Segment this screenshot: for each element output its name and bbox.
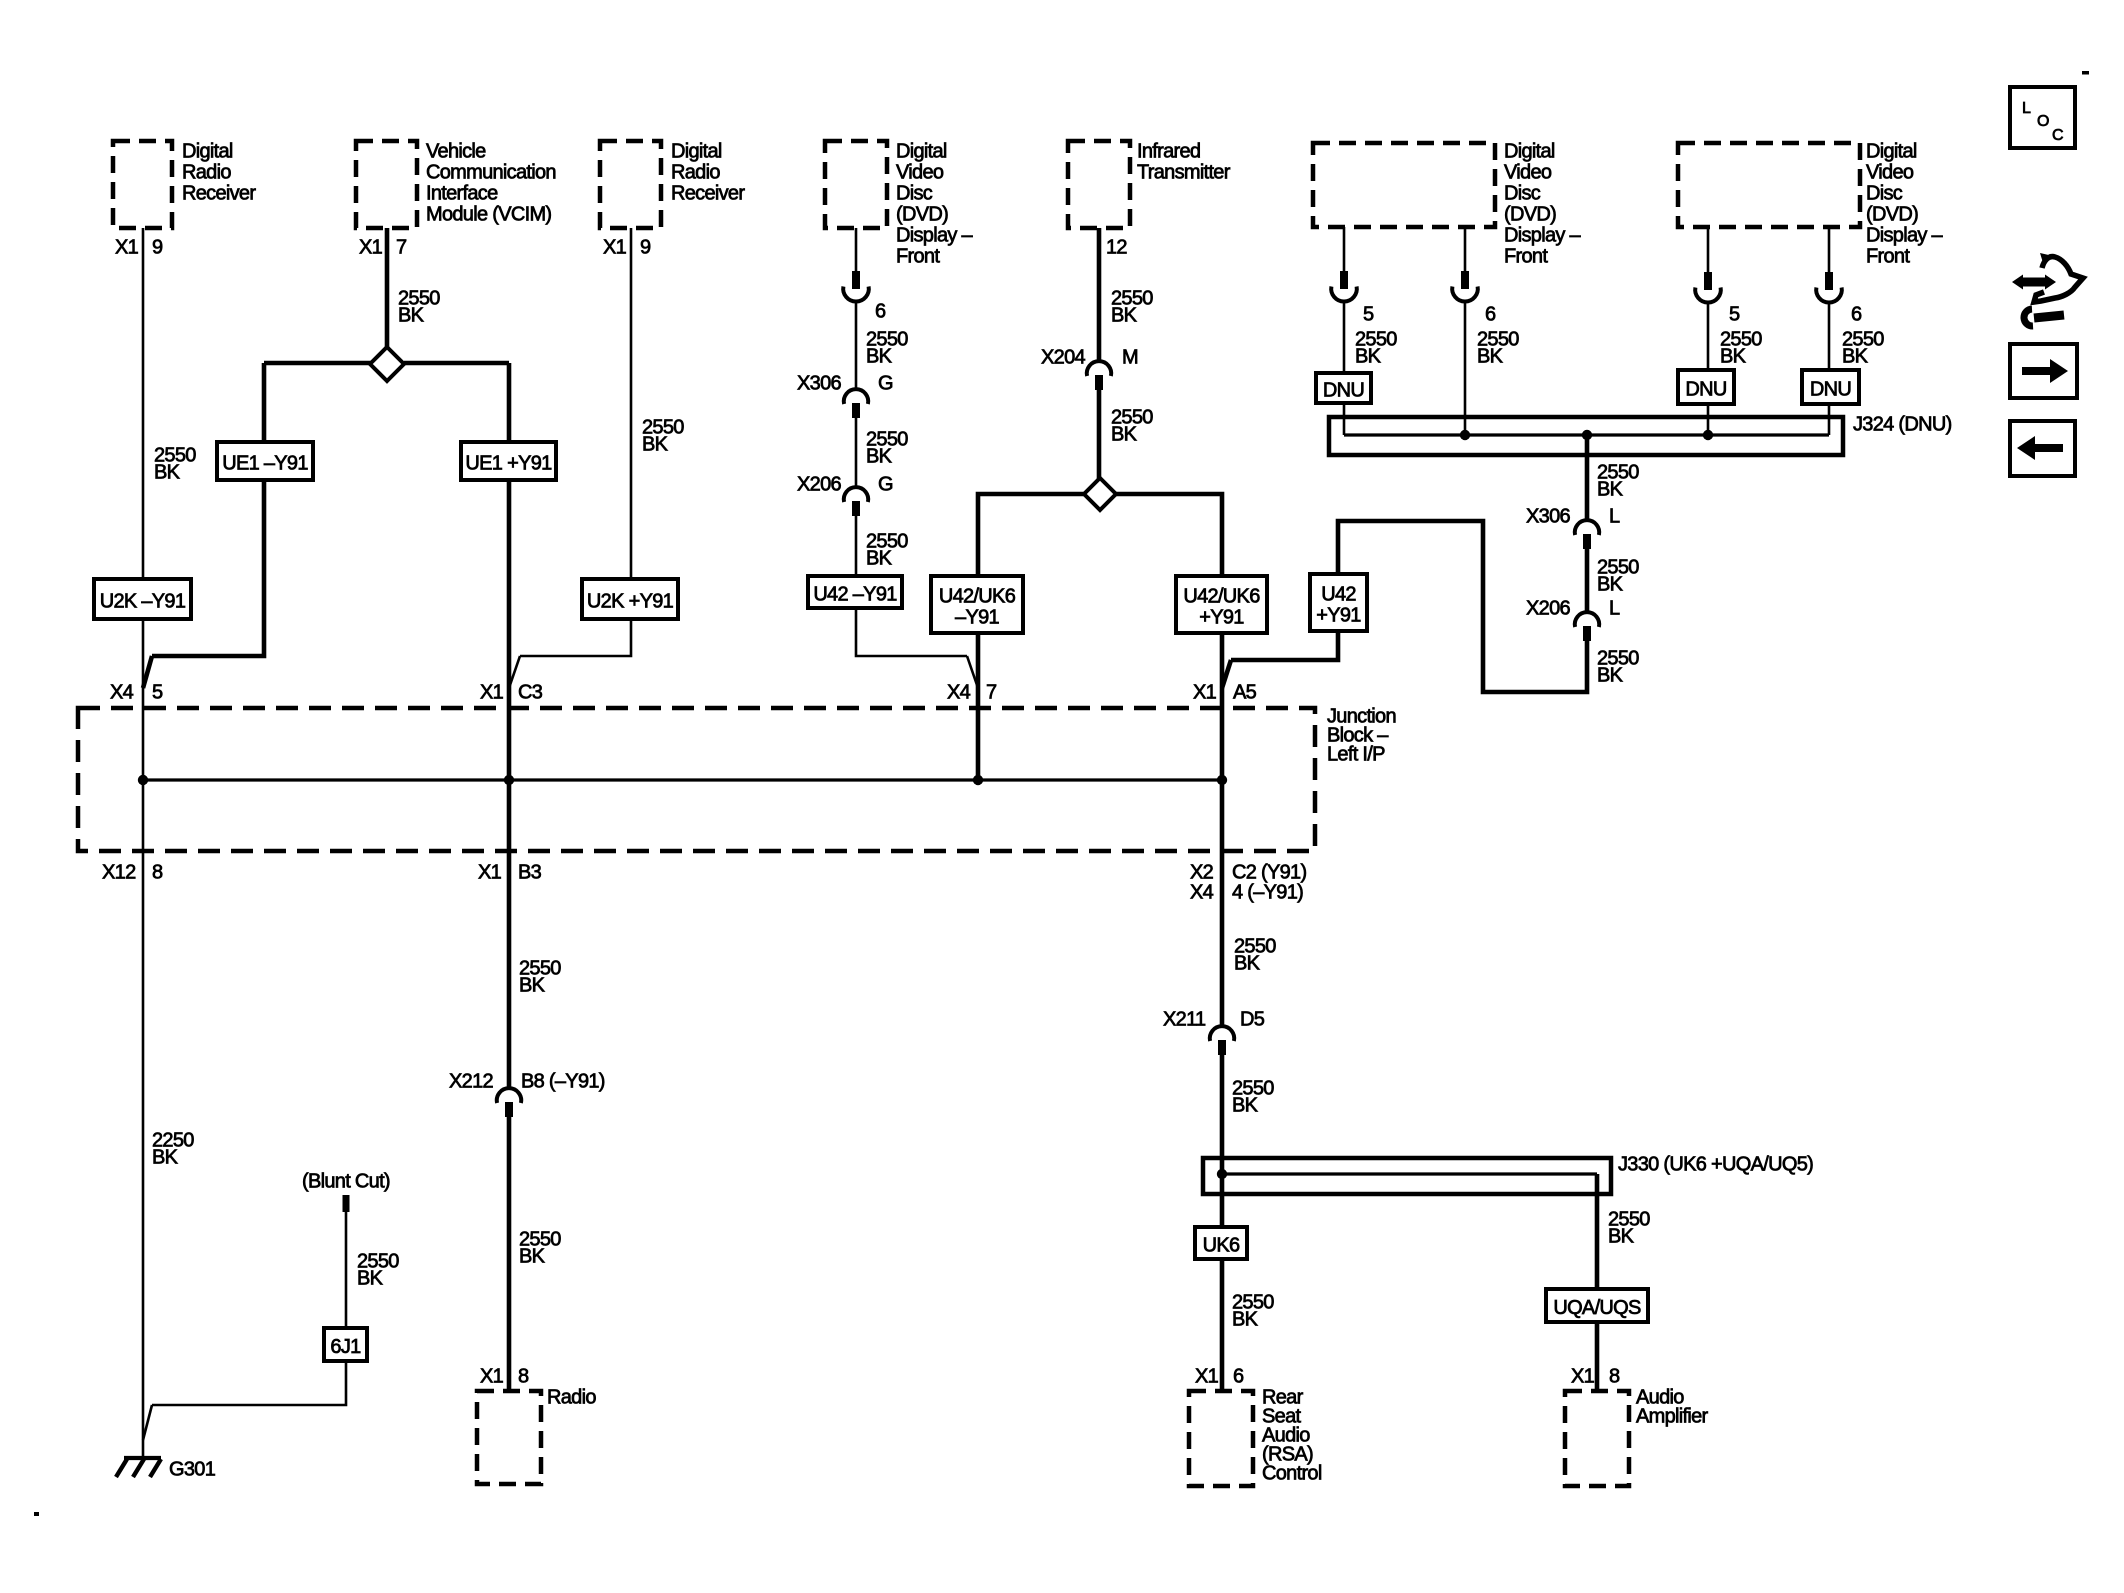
- svg-text:X212: X212: [449, 1071, 493, 1093]
- component Digital Video Disc (DVD) Display - Front (third) dashed box: [1678, 143, 1860, 227]
- svg-text:X4: X4: [110, 682, 134, 704]
- svg-text:BK: BK: [519, 975, 546, 997]
- svg-text:(DVD): (DVD): [1504, 204, 1556, 226]
- wire splice horizontal left branch: [264, 361, 371, 366]
- wire 6J1 down and left to ground wire: [152, 1361, 346, 1405]
- wire DNU first to J324 bus: [1343, 403, 1346, 435]
- tiny mark bottom left: [34, 1512, 39, 1516]
- svg-text:X12: X12: [102, 862, 136, 884]
- wire jog into ground wire: [143, 1405, 152, 1440]
- inline connector X211 arc and terminal: [1210, 1026, 1234, 1041]
- svg-text:6: 6: [875, 301, 886, 323]
- bus wire inside J324: [1344, 433, 1829, 436]
- svg-text:X2: X2: [1190, 862, 1214, 884]
- svg-text:–Y91: –Y91: [955, 606, 999, 628]
- svg-text:X1: X1: [1571, 1366, 1595, 1388]
- junction dot J324 at DVD3 pin5 drop: [1703, 430, 1713, 440]
- svg-text:Infrared: Infrared: [1137, 141, 1200, 163]
- svg-text:BK: BK: [1597, 479, 1624, 501]
- terminal connector at DVD Display second pin 6: [1461, 271, 1469, 289]
- wire U42/UK6 -Y91 to junction bus: [976, 633, 981, 780]
- connector U42/UK6 -Y91 box: [931, 576, 1023, 633]
- connector U2K +Y91 box: [582, 579, 678, 619]
- wire U42/UK6 +Y91 down through junction block to X211, J330, UK6, RSA: [1220, 633, 1225, 1026]
- junction dot at A5 wire: [1217, 775, 1227, 785]
- junction dot J330 at UK6 wire: [1217, 1169, 1227, 1179]
- component Junction Block - Left I/P dashed box: [78, 708, 1315, 851]
- svg-text:X306: X306: [797, 373, 841, 395]
- connector DNU box (second): [1678, 370, 1734, 404]
- svg-text:L: L: [1609, 598, 1620, 620]
- junction dot at X4-5 wire: [138, 775, 148, 785]
- svg-text:L: L: [2022, 100, 2031, 117]
- svg-text:BK: BK: [866, 548, 893, 570]
- svg-text:BK: BK: [866, 346, 893, 368]
- svg-text:Radio: Radio: [671, 162, 720, 184]
- svg-text:UE1 –Y91: UE1 –Y91: [222, 452, 308, 474]
- svg-text:7: 7: [986, 682, 997, 704]
- svg-text:Control: Control: [1262, 1463, 1322, 1485]
- wire blunt cut through 6J1 to ground merge: [345, 1212, 348, 1328]
- wire between X206 L and X306 L: [1585, 549, 1590, 612]
- svg-text:Digital: Digital: [182, 141, 233, 163]
- wire U42 +Y91 top loop to X206/X306 L chain: [1338, 521, 1587, 692]
- svg-text:U42: U42: [1321, 583, 1356, 605]
- junction dot J324 at X306 L drop: [1582, 430, 1592, 440]
- connector UE1 +Y91 box: [461, 442, 556, 480]
- svg-text:X1: X1: [115, 237, 139, 259]
- ground G301 symbol: [124, 1456, 161, 1460]
- wire Digital Radio Receiver X1-9 to ground G301 (2550/2250 BK): [142, 228, 145, 1462]
- wire DVD Display third pin 6 to DNU: [1828, 227, 1831, 272]
- wire DNU third to J324 bus: [1828, 404, 1831, 435]
- wire VCIM splice left branch to UE1 -Y91 and X4-5 merge: [152, 363, 264, 656]
- svg-text:BK: BK: [1597, 665, 1624, 687]
- svg-text:8: 8: [152, 862, 163, 884]
- svg-text:U2K +Y91: U2K +Y91: [587, 590, 674, 612]
- terminal connector at DVD Display third pin 5: [1704, 272, 1712, 290]
- svg-text:A5: A5: [1233, 682, 1257, 704]
- svg-text:DNU: DNU: [1323, 379, 1364, 401]
- svg-text:UQA/UQS: UQA/UQS: [1553, 1297, 1641, 1319]
- svg-text:X4: X4: [1190, 882, 1214, 904]
- inline connector X204 (M): [1087, 361, 1111, 376]
- component Digital Video Disc (DVD) Display - Front (second) dashed box: [1313, 143, 1495, 227]
- svg-text:X206: X206: [797, 474, 841, 496]
- svg-text:U42/UK6: U42/UK6: [1183, 585, 1260, 607]
- wire DVD Display second pin 5 to DNU: [1343, 227, 1346, 271]
- svg-text:8: 8: [518, 1366, 529, 1388]
- junction dot at C3 wire: [504, 775, 514, 785]
- connector U42/UK6 +Y91 box: [1176, 576, 1267, 633]
- junction dot at X4-7 wire: [973, 775, 983, 785]
- svg-text:Radio: Radio: [547, 1387, 596, 1409]
- splice diamond (VCIM Y91 split): [370, 347, 404, 381]
- svg-text:BK: BK: [1477, 346, 1504, 368]
- wire X204 to splice diamond: [1097, 389, 1102, 479]
- inline connector X206 (G): [844, 487, 868, 502]
- component Digital Radio Receiver (left) dashed box: [113, 141, 172, 228]
- svg-text:Video: Video: [1504, 162, 1552, 184]
- svg-text:BK: BK: [519, 1246, 546, 1268]
- diagnostic icon (arrows and wrench): [2012, 253, 2083, 326]
- wire DVD Display second pin 6 to J324 bus: [1464, 227, 1467, 271]
- wire X306 L up to J324 bus: [1585, 435, 1590, 520]
- component Rear Seat Audio (RSA) Control dashed box: [1189, 1391, 1253, 1486]
- wire U42 +Y91 bottom to X1 A5 merge: [1231, 631, 1338, 660]
- svg-text:BK: BK: [152, 1147, 179, 1169]
- svg-text:4 (–Y91): 4 (–Y91): [1232, 882, 1303, 904]
- wire UK6 to RSA control X1-6: [1220, 1259, 1225, 1391]
- svg-text:12: 12: [1106, 237, 1127, 259]
- svg-text:Receiver: Receiver: [182, 183, 256, 205]
- svg-text:BK: BK: [154, 462, 181, 484]
- svg-text:X1: X1: [480, 1366, 504, 1388]
- svg-text:6: 6: [1485, 304, 1496, 326]
- svg-text:O: O: [2037, 113, 2049, 130]
- svg-text:Disc: Disc: [1866, 183, 1903, 205]
- svg-text:5: 5: [1363, 304, 1374, 326]
- wire splice horizontal right branch: [404, 361, 509, 366]
- wire DVD Display third pin 5 to DNU: [1707, 227, 1710, 272]
- connector DNU box (first): [1316, 373, 1371, 403]
- component Radio dashed box: [477, 1391, 541, 1484]
- svg-text:6J1: 6J1: [330, 1336, 361, 1358]
- svg-text:X1: X1: [359, 237, 383, 259]
- svg-text:Video: Video: [896, 162, 944, 184]
- wire jog into pin X1 A5: [1222, 660, 1231, 688]
- splice diamond (infrared Y91 split): [1084, 478, 1116, 510]
- svg-text:6: 6: [1233, 1366, 1244, 1388]
- svg-text:U42 –Y91: U42 –Y91: [813, 583, 897, 605]
- svg-text:C3: C3: [518, 682, 543, 704]
- svg-text:X206: X206: [1526, 598, 1570, 620]
- svg-text:Disc: Disc: [896, 183, 933, 205]
- component Vehicle Communication Interface Module (VCIM) dashed box: [356, 141, 417, 228]
- svg-text:M: M: [1122, 347, 1138, 369]
- svg-text:J324 (DNU): J324 (DNU): [1853, 414, 1952, 436]
- svg-text:Display –: Display –: [1866, 225, 1944, 247]
- svg-text:+Y91: +Y91: [1199, 606, 1244, 628]
- svg-text:G: G: [878, 373, 893, 395]
- component Infrared Transmitter dashed box: [1068, 141, 1130, 228]
- svg-text:Radio: Radio: [182, 162, 231, 184]
- svg-text:J330 (UK6 +UQA/UQ5): J330 (UK6 +UQA/UQ5): [1618, 1154, 1813, 1176]
- svg-text:5: 5: [152, 682, 163, 704]
- svg-text:(DVD): (DVD): [1866, 204, 1918, 226]
- svg-text:DNU: DNU: [1685, 378, 1726, 400]
- svg-text:+Y91: +Y91: [1316, 604, 1361, 626]
- wire DVD Display first pin 6 down to U42 -Y91 and X4-7 merge: [855, 228, 858, 271]
- bus wire inside J330: [1222, 1172, 1597, 1175]
- svg-text:Front: Front: [1866, 246, 1910, 268]
- svg-text:BK: BK: [1232, 1095, 1259, 1117]
- connector U2K -Y91 box: [94, 579, 191, 619]
- svg-text:8: 8: [1609, 1366, 1620, 1388]
- svg-text:B8 (–Y91): B8 (–Y91): [521, 1071, 605, 1093]
- svg-text:Display –: Display –: [896, 225, 974, 247]
- inline connector X212 arc and terminal: [497, 1088, 521, 1103]
- splice pack J324 (DNU) outer box: [1329, 417, 1843, 455]
- svg-text:Front: Front: [1504, 246, 1548, 268]
- terminal connector at DVD Display second pin 5: [1340, 271, 1348, 289]
- svg-text:Receiver: Receiver: [671, 183, 745, 205]
- component Digital Video Disc (DVD) Display - Front (first) dashed box: [825, 141, 887, 228]
- svg-text:U42/UK6: U42/UK6: [939, 585, 1016, 607]
- wire Digital Radio Receiver second X1-9 down through U2K +Y91: [520, 228, 631, 656]
- svg-text:X211: X211: [1163, 1009, 1206, 1031]
- svg-text:BK: BK: [1720, 346, 1747, 368]
- svg-text:Digital: Digital: [1504, 141, 1555, 163]
- inline connector X306 (G): [844, 389, 868, 404]
- svg-text:BK: BK: [1608, 1226, 1635, 1248]
- svg-text:(DVD): (DVD): [896, 204, 948, 226]
- svg-text:X306: X306: [1526, 506, 1570, 528]
- svg-text:BK: BK: [357, 1268, 384, 1290]
- blunt cut terminal: [343, 1195, 350, 1212]
- wire infrared splice right branch to U42/UK6 +Y91: [1116, 494, 1222, 576]
- connector U42 +Y91 box: [1310, 574, 1367, 631]
- svg-text:C: C: [2052, 127, 2064, 144]
- inline connector X206 (L): [1575, 612, 1599, 627]
- back arrow legend box: [2010, 421, 2075, 476]
- connector UQA/UQS box: [1546, 1289, 1648, 1322]
- connector UE1 -Y91 box: [217, 442, 313, 480]
- terminal connector at DVD Display third pin 6: [1825, 272, 1833, 290]
- svg-text:U2K –Y91: U2K –Y91: [100, 590, 186, 612]
- connector 6J1 box: [324, 1328, 367, 1361]
- svg-text:UE1 +Y91: UE1 +Y91: [465, 452, 552, 474]
- svg-text:9: 9: [152, 237, 163, 259]
- svg-text:Left I/P: Left I/P: [1327, 744, 1385, 766]
- wire Infrared Transmitter pin 12 to X204: [1097, 228, 1102, 361]
- component Digital Radio Receiver (second) dashed box: [600, 141, 661, 228]
- wire UE1 +Y91 down through junction block to X212 and Radio: [507, 363, 512, 442]
- svg-text:DNU: DNU: [1810, 378, 1851, 400]
- wire J330 right drop to UQA/UQS: [1595, 1174, 1600, 1289]
- svg-text:C2 (Y91): C2 (Y91): [1232, 862, 1306, 884]
- svg-text:Display –: Display –: [1504, 225, 1582, 247]
- svg-text:Digital: Digital: [1866, 141, 1917, 163]
- svg-text:X1: X1: [480, 682, 504, 704]
- connector U42 -Y91 box: [808, 576, 902, 608]
- LOC legend box: [2010, 87, 2075, 148]
- svg-text:Video: Video: [1866, 162, 1914, 184]
- wire jog into pin X1 C3: [509, 656, 520, 688]
- svg-text:X4: X4: [947, 682, 971, 704]
- svg-text:7: 7: [396, 237, 407, 259]
- svg-text:X1: X1: [1195, 1366, 1219, 1388]
- wire X212 to Radio X1-8: [507, 1116, 512, 1391]
- svg-text:Front: Front: [896, 246, 940, 268]
- svg-text:5: 5: [1729, 304, 1740, 326]
- svg-text:6: 6: [1851, 304, 1862, 326]
- wire jog into pin X4 5: [143, 656, 152, 688]
- connector DNU box (third): [1802, 370, 1859, 404]
- svg-text:BK: BK: [1111, 424, 1138, 446]
- svg-text:UK6: UK6: [1203, 1234, 1240, 1256]
- terminal connector at DVD Display first pin 6: [852, 271, 860, 289]
- wire VCIM X1-7 down to splice diamond: [385, 228, 390, 348]
- svg-text:BK: BK: [1111, 305, 1138, 327]
- svg-text:L: L: [1609, 506, 1620, 528]
- wire DNU second to J324 bus: [1707, 404, 1710, 435]
- svg-text:Module (VCIM): Module (VCIM): [426, 204, 551, 226]
- svg-text:Amplifier: Amplifier: [1636, 1406, 1709, 1428]
- svg-text:Communication: Communication: [426, 162, 556, 184]
- svg-text:BK: BK: [1234, 953, 1261, 975]
- bus wire inside junction block: [143, 778, 1222, 781]
- svg-text:X1: X1: [478, 862, 502, 884]
- inline connector X306 (L): [1575, 520, 1599, 535]
- connector UK6 box: [1195, 1227, 1247, 1259]
- wire infrared splice left branch to U42/UK6 -Y91: [978, 494, 1084, 576]
- svg-text:BK: BK: [1232, 1309, 1259, 1331]
- wire U42 -Y91 to X4-7 merge: [856, 608, 967, 656]
- svg-text:(Blunt Cut): (Blunt Cut): [302, 1171, 390, 1193]
- svg-text:Vehicle: Vehicle: [426, 141, 486, 163]
- svg-text:D5: D5: [1240, 1009, 1265, 1031]
- svg-text:BK: BK: [1597, 574, 1624, 596]
- svg-text:G301: G301: [169, 1459, 216, 1481]
- svg-text:BK: BK: [642, 434, 669, 456]
- svg-text:BK: BK: [866, 446, 893, 468]
- tiny mark top right: [2082, 71, 2089, 75]
- svg-text:BK: BK: [1842, 346, 1869, 368]
- svg-text:Interface: Interface: [426, 183, 498, 205]
- wire UQA/UQS to Audio Amplifier X1-8: [1595, 1322, 1600, 1391]
- svg-text:X1: X1: [1193, 682, 1217, 704]
- svg-text:Digital: Digital: [671, 141, 722, 163]
- svg-text:BK: BK: [398, 305, 425, 327]
- svg-text:Transmitter: Transmitter: [1137, 162, 1231, 184]
- svg-text:X1: X1: [603, 237, 627, 259]
- component Audio Amplifier dashed box: [1565, 1391, 1629, 1486]
- svg-text:Disc: Disc: [1504, 183, 1541, 205]
- svg-text:X204: X204: [1041, 347, 1085, 369]
- svg-text:BK: BK: [1355, 346, 1382, 368]
- svg-text:G: G: [878, 474, 893, 496]
- forward arrow legend box: [2010, 344, 2077, 398]
- svg-text:Digital: Digital: [896, 141, 947, 163]
- junction dot J324 at DVD2 pin6 drop: [1460, 430, 1470, 440]
- splice pack J330 outer box: [1203, 1158, 1611, 1194]
- svg-text:B3: B3: [518, 862, 542, 884]
- svg-text:9: 9: [640, 237, 651, 259]
- wire jog into pin X4 7: [967, 656, 978, 688]
